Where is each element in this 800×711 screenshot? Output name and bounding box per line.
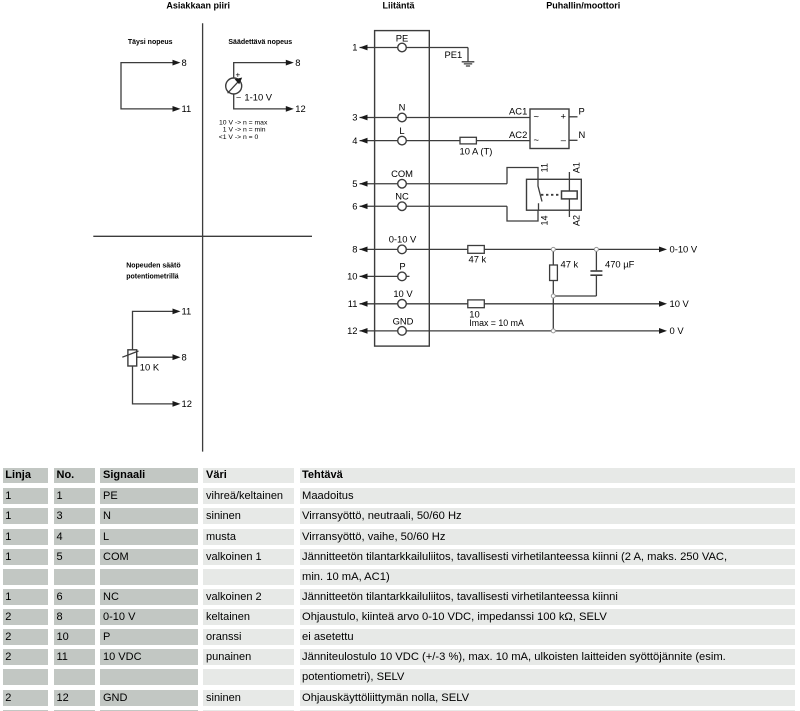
- svg-text:11: 11: [182, 103, 192, 114]
- svg-text:AC1: AC1: [509, 106, 527, 117]
- svg-text:0-10 V: 0-10 V: [389, 234, 417, 245]
- svg-text:5: 5: [352, 178, 357, 189]
- svg-text:PE1: PE1: [445, 49, 463, 60]
- svg-text:10 A (T): 10 A (T): [460, 146, 493, 157]
- svg-text:47 k: 47 k: [561, 259, 579, 270]
- svg-text:+: +: [236, 70, 241, 79]
- svg-text:10: 10: [347, 271, 357, 282]
- svg-text:3: 3: [352, 112, 357, 123]
- svg-text:COM: COM: [391, 168, 413, 179]
- svg-text:8: 8: [352, 244, 357, 255]
- svg-text:Puhallin/moottori: Puhallin/moottori: [546, 1, 620, 11]
- svg-text:Nopeuden säätö: Nopeuden säätö: [126, 262, 180, 269]
- svg-text:0 V: 0 V: [670, 325, 685, 336]
- svg-text:8: 8: [295, 57, 300, 68]
- svg-text:12: 12: [295, 103, 305, 114]
- svg-text:Säädettävä nopeus: Säädettävä nopeus: [228, 39, 292, 46]
- svg-text:0-10 V: 0-10 V: [670, 244, 698, 255]
- svg-text:10 V -> n = max: 10 V -> n = max: [219, 119, 268, 126]
- svg-text:N: N: [579, 129, 586, 140]
- svg-text:11: 11: [540, 163, 550, 172]
- svg-text:6: 6: [352, 200, 357, 211]
- svg-text:potentiometrillä: potentiometrillä: [126, 273, 179, 280]
- svg-text:Täysi nopeus: Täysi nopeus: [128, 39, 173, 46]
- svg-text:PE: PE: [396, 32, 409, 43]
- svg-text:A1: A1: [572, 162, 582, 173]
- svg-text:AC2: AC2: [509, 129, 527, 140]
- svg-text:11: 11: [182, 306, 192, 317]
- svg-text:A2: A2: [572, 215, 582, 226]
- svg-text:–: –: [236, 93, 241, 102]
- svg-text:L: L: [399, 125, 404, 136]
- svg-text:10 K: 10 K: [140, 362, 160, 373]
- svg-text:+: +: [561, 111, 567, 122]
- svg-text:47 k: 47 k: [469, 254, 487, 265]
- svg-text:GND: GND: [393, 315, 414, 326]
- svg-text:N: N: [399, 102, 406, 113]
- svg-text:10 V: 10 V: [670, 298, 690, 309]
- svg-text:NC: NC: [395, 190, 409, 201]
- svg-text:8: 8: [182, 351, 187, 362]
- svg-text:–: –: [561, 134, 567, 145]
- svg-text:P: P: [579, 106, 585, 117]
- svg-text:10 V: 10 V: [393, 288, 413, 299]
- svg-text:~: ~: [534, 111, 540, 122]
- svg-text:1-10 V: 1-10 V: [244, 92, 272, 103]
- svg-text:8: 8: [182, 57, 187, 68]
- svg-text:4: 4: [352, 135, 357, 146]
- svg-text:1 V -> n = min: 1 V -> n = min: [223, 127, 266, 134]
- svg-text:12: 12: [182, 398, 192, 409]
- svg-text:P: P: [399, 261, 405, 272]
- svg-text:14: 14: [540, 215, 550, 225]
- svg-text:~: ~: [534, 134, 540, 145]
- svg-text:11: 11: [348, 298, 358, 309]
- svg-text:12: 12: [347, 325, 357, 336]
- svg-text:Liitäntä: Liitäntä: [382, 1, 415, 11]
- svg-text:1: 1: [352, 42, 357, 53]
- svg-text:Imax = 10 mA: Imax = 10 mA: [469, 318, 524, 328]
- svg-text:<1 V -> n = 0: <1 V -> n = 0: [219, 134, 259, 141]
- svg-text:Asiakkaan piiri: Asiakkaan piiri: [166, 1, 230, 11]
- svg-text:470 µF: 470 µF: [605, 259, 635, 270]
